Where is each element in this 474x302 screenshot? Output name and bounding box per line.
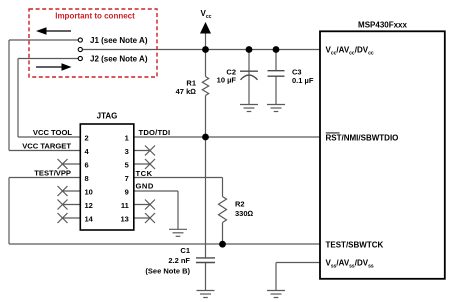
- svg-text:J2 (see Note A): J2 (see Note A): [90, 55, 148, 64]
- svg-text:8: 8: [85, 174, 89, 183]
- svg-text:1: 1: [125, 134, 129, 143]
- svg-text:9: 9: [125, 188, 129, 197]
- svg-text:12: 12: [85, 201, 93, 210]
- svg-text:C3: C3: [292, 67, 302, 76]
- svg-text:7: 7: [125, 174, 129, 183]
- svg-text:MSP430Fxxx: MSP430Fxxx: [358, 20, 407, 29]
- svg-text:2.2 nF: 2.2 nF: [168, 256, 190, 265]
- svg-text:VCC TOOL: VCC TOOL: [33, 128, 72, 137]
- svg-text:14: 14: [85, 215, 94, 224]
- svg-text:11: 11: [121, 201, 129, 210]
- svg-text:330Ω: 330Ω: [235, 209, 254, 218]
- svg-text:0.1 µF: 0.1 µF: [292, 76, 314, 85]
- svg-text:Vcc: Vcc: [201, 9, 212, 20]
- svg-text:47 kΩ: 47 kΩ: [176, 87, 197, 96]
- svg-text:13: 13: [120, 215, 128, 224]
- svg-text:3: 3: [125, 147, 129, 156]
- svg-text:R2: R2: [235, 200, 245, 209]
- svg-text:JTAG: JTAG: [97, 112, 118, 121]
- svg-text:10 µF: 10 µF: [217, 75, 237, 84]
- svg-text:2: 2: [85, 134, 89, 143]
- svg-text:J1 (see Note A): J1 (see Note A): [90, 36, 148, 45]
- svg-text:VCC TARGET: VCC TARGET: [22, 142, 71, 151]
- svg-text:C1: C1: [180, 246, 190, 255]
- svg-text:6: 6: [85, 161, 89, 170]
- svg-text:TEST/SBWTCK: TEST/SBWTCK: [326, 241, 384, 250]
- svg-text:TCK: TCK: [136, 169, 153, 178]
- svg-text:TEST/VPP: TEST/VPP: [34, 169, 71, 178]
- svg-text:(See Note B): (See Note B): [145, 267, 190, 276]
- svg-text:5: 5: [125, 161, 129, 170]
- svg-text:TDO/TDI: TDO/TDI: [139, 128, 171, 137]
- svg-text:RST/NMI/SBWTDIO: RST/NMI/SBWTDIO: [326, 134, 399, 143]
- svg-text:Important to connect: Important to connect: [55, 11, 135, 20]
- svg-text:GND: GND: [136, 181, 154, 190]
- svg-text:10: 10: [85, 188, 93, 197]
